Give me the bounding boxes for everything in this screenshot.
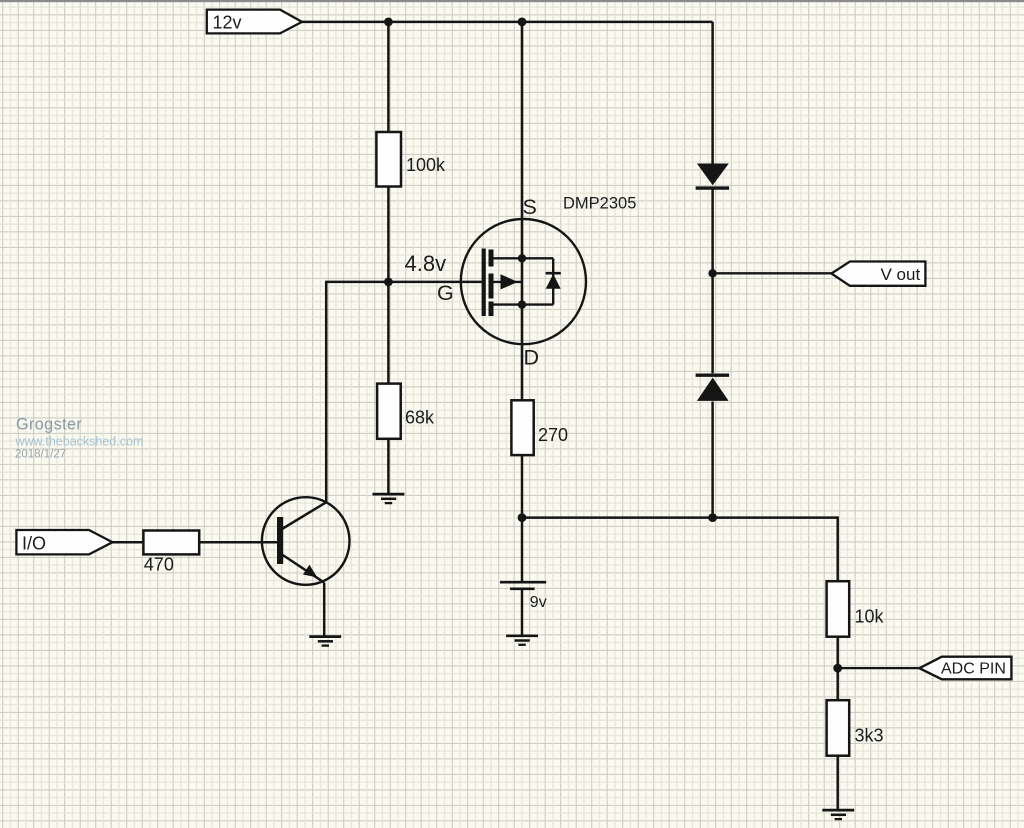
svg-text:100k: 100k [406, 155, 446, 175]
svg-text:www.thebackshed.com: www.thebackshed.com [15, 434, 144, 448]
wire: 10k to ADC node [836, 637, 839, 702]
mosfet drain contact line [491, 303, 553, 305]
net flag V out [831, 262, 925, 286]
transistor circle [262, 497, 350, 585]
wire: 3k3 to ground [836, 756, 839, 810]
mosfet channel dash top [489, 250, 494, 267]
transistor emitter arrow [303, 565, 317, 578]
resistor R 3k3 [827, 700, 884, 756]
wire: 68k to ground [387, 439, 390, 494]
svg-text:9v: 9v [530, 594, 547, 611]
wire: emitter down to ground [323, 583, 326, 637]
wire: bottom rail corner down to 10k [836, 516, 839, 582]
svg-text:DMP2305: DMP2305 [563, 195, 636, 213]
svg-text:I/O: I/O [22, 534, 46, 554]
svg-text:270: 270 [538, 425, 568, 445]
svg-text:G: G [437, 281, 454, 305]
svg-text:S: S [523, 195, 537, 219]
svg-text:3k3: 3k3 [855, 726, 884, 746]
wire: collector riser [325, 281, 328, 503]
body diode triangle [546, 274, 561, 289]
diode D2 triangle [697, 378, 729, 401]
MOSFET U1 DMP2305 [437, 22, 636, 401]
resistor R 68k [377, 384, 435, 439]
transistor Q1 [262, 497, 350, 585]
mosfet arrow [501, 274, 518, 289]
svg-text:10k: 10k [855, 607, 885, 627]
wire: 12v rail down to resistor 100k [387, 22, 390, 133]
body diode branch line [552, 258, 554, 304]
wire: 100k to 68k through gate node [387, 187, 390, 385]
svg-text:470: 470 [144, 555, 174, 575]
wire: gate wire from collector riser to MOSFET gate [326, 281, 481, 284]
net flag 12v [207, 10, 302, 34]
top gray border [0, 0, 1024, 2]
junction dot top rail at 100k branch [384, 18, 393, 27]
wire: junction down to battery [521, 518, 524, 582]
mosfet gate bar [482, 249, 486, 317]
svg-text:ADC PIN: ADC PIN [941, 661, 1006, 678]
junction dot Vout node [708, 269, 716, 277]
mosfet middle contact line [491, 281, 522, 283]
diode D2 cathode bar [696, 374, 730, 377]
wire: 470 to transistor base [199, 541, 277, 544]
svg-text:12v: 12v [213, 13, 242, 33]
transistor base bar [277, 517, 283, 564]
wire: bottom rail [522, 516, 838, 519]
wire: ADC node to flag [838, 667, 919, 669]
svg-text:68k: 68k [405, 408, 435, 428]
transistor emitter stroke [282, 555, 324, 583]
junction dot gate node [384, 278, 393, 287]
resistor R 10k [827, 581, 885, 637]
wire: Vout node to flag [713, 272, 833, 274]
junction dot ADC node [833, 664, 842, 673]
svg-text:2018/1/27: 2018/1/27 [15, 448, 66, 460]
diode D1 triangle [697, 164, 729, 186]
svg-text:Grogster: Grogster [16, 415, 82, 433]
body diode cathode bar [546, 272, 561, 275]
mosfet channel dash bottom [489, 302, 494, 317]
ground under 3k3 [822, 810, 854, 819]
svg-text:D: D [524, 346, 540, 370]
diode D1 cathode bar [696, 186, 730, 189]
wire: battery to ground [521, 590, 524, 636]
wire: D1 to Vout node [711, 190, 714, 374]
junction dot bottom rail left [518, 513, 527, 522]
net flag I/O [16, 530, 112, 554]
junction dot mosfet drain node [518, 300, 526, 308]
resistor R 100k [376, 132, 446, 187]
ground under battery [506, 636, 538, 645]
svg-text:V out: V out [881, 265, 921, 284]
mosfet body circle [461, 219, 586, 344]
wire: source/drain vertical through mosfet [521, 22, 524, 401]
mosfet source contact line [491, 257, 553, 259]
resistor R 270 [511, 400, 568, 455]
mosfet channel dash middle [489, 274, 494, 299]
ground under 68k [373, 494, 405, 503]
ground under transistor [309, 637, 341, 646]
junction dot bottom rail at diode branch [708, 513, 717, 522]
net flag ADC PIN [919, 657, 1011, 680]
wire: D2 to bottom rail [711, 402, 714, 518]
junction dot top rail at MOSFET branch [518, 18, 527, 27]
svg-text:4.8v: 4.8v [405, 251, 447, 276]
battery 9v [500, 582, 547, 611]
wire: 270 to bottom rail junction [521, 455, 524, 517]
junction dot mosfet source node [518, 254, 526, 262]
wire: diode branch from top rail down [711, 22, 714, 165]
wire: I/O flag to resistor 470 [113, 541, 144, 544]
resistor R 470 [143, 531, 199, 575]
transistor collector stroke [282, 502, 327, 529]
wire: top rail from 12v flag to diode column [301, 21, 713, 24]
